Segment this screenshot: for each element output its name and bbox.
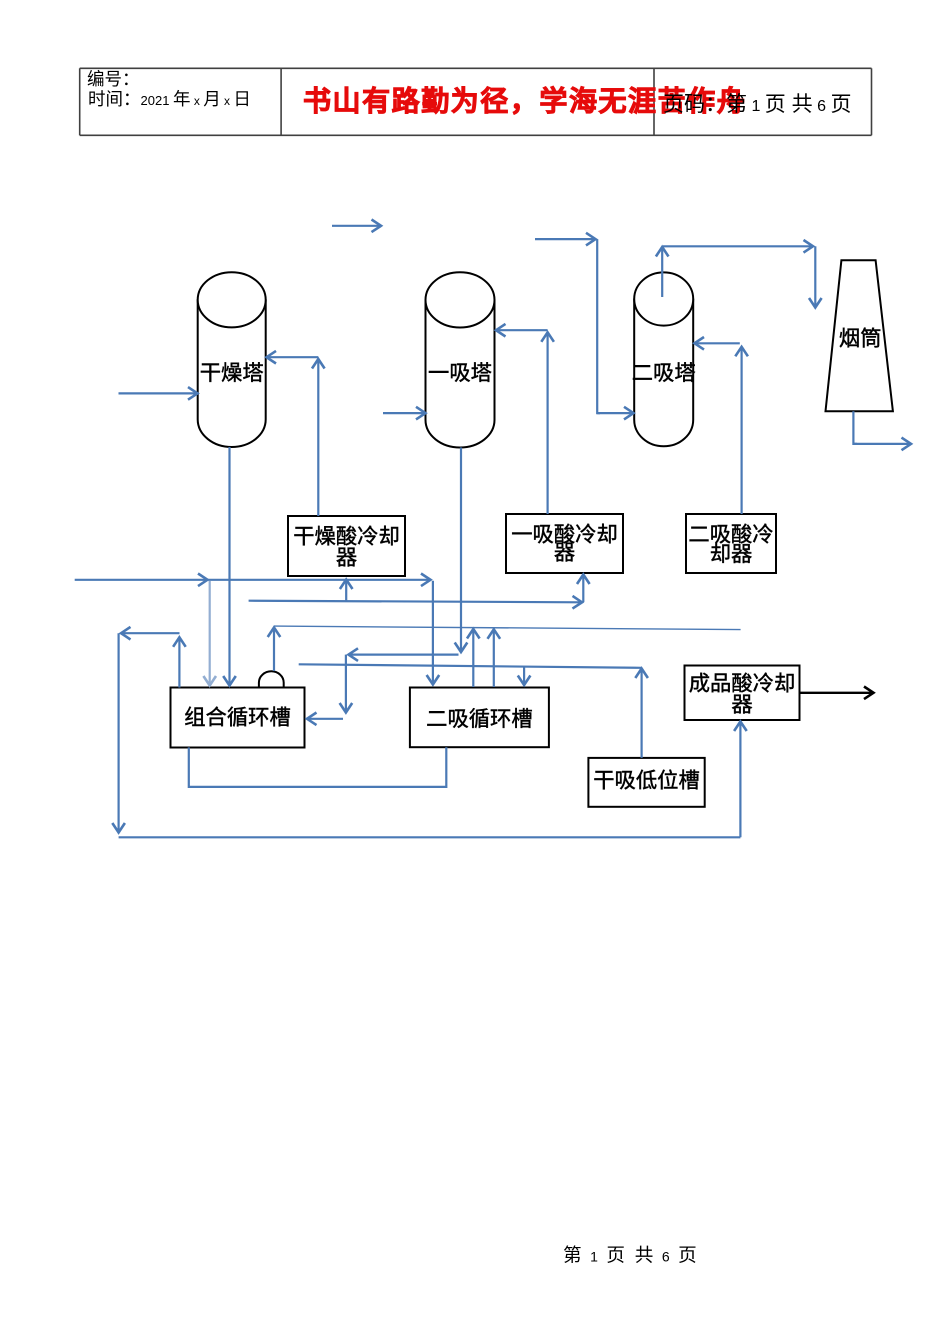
black product outlet arrow [800,692,873,694]
wire 干燥酸冷却器 to 干燥塔 vertical [317,360,319,517]
svg-text:器: 器 [336,546,357,570]
wire to 二吸塔 elbow [597,239,600,413]
svg-text:一吸塔: 一吸塔 [428,361,492,385]
wire vent down to chimney [814,246,816,307]
svg-text:干燥塔: 干燥塔 [200,361,264,385]
box 二吸循环槽 [410,688,549,748]
wire dome vent up [273,628,275,671]
box 干燥酸冷却器 [288,516,405,576]
wire 一吸酸冷却器 to 一吸塔 vertical [546,333,548,514]
wire line D [299,664,642,668]
wire elbow to left [349,653,459,655]
wire long line to light drop [75,579,207,581]
wire line C thin [274,626,741,630]
wire long line continues [208,579,431,581]
wire 干燥酸冷却器 to 干燥塔 horizontal [267,356,318,358]
wire 干燥塔 bottom to 组合循环槽 [228,447,230,685]
wire inlet to 一吸塔 [383,412,425,414]
wire vent horizontal [663,245,813,247]
box 二吸酸冷却器 [686,514,776,573]
wire 组合循环槽 bottom elbow [189,747,447,787]
wire up into 成品酸冷却器 [739,722,741,837]
wire into 组合循环槽 right [308,718,344,720]
svg-text:烟筒: 烟筒 [839,327,882,351]
svg-text:组合循环槽: 组合循环槽 [184,706,291,730]
box 成品酸冷却器 [685,666,800,721]
svg-text:编号：: 编号： [87,69,140,89]
wire line B horizontal [249,601,582,603]
wire 二吸酸冷却器 to 二吸塔 horizontal [695,342,740,344]
box 一吸酸冷却器 [506,514,623,573]
wire bottom long line [119,836,741,838]
wire line B up into 一吸酸冷却器 [582,575,584,602]
svg-text:器: 器 [731,693,752,717]
wire top short arrow [332,225,381,227]
wire chimney outlet [853,411,857,444]
wire 一吸酸冷却器 to 一吸塔 horizontal [497,329,548,331]
svg-text:第 1 页 共 6 页: 第 1 页 共 6 页 [563,1245,699,1266]
wire 二吸塔 top vent up [661,248,663,298]
svg-text:器: 器 [554,541,575,565]
wire line D drop into 二吸循环槽 [523,667,525,685]
wire left elbow [122,632,180,634]
wire corner down to 二吸循环槽 [432,581,434,684]
box 组合循环槽 [171,688,305,748]
wire 一吸塔 bottom down [460,448,462,652]
wire 二吸循环槽 vent up 2 [493,630,495,687]
wire 二吸循环槽 vent up 1 [472,630,474,688]
wire up arrow into 干燥酸冷却器 bottom [345,580,347,602]
tower 一吸塔 body [426,272,495,447]
svg-text:二吸循环槽: 二吸循环槽 [426,707,533,731]
wire to 二吸塔 inlet [597,412,633,414]
wire 二吸酸冷却器 to 二吸塔 vertical [740,347,742,514]
svg-text:干吸低位槽: 干吸低位槽 [593,769,700,793]
svg-text:二吸塔: 二吸塔 [632,361,696,385]
wire corner down arrow toward 组合循环槽 [345,655,347,712]
wire 组合循环槽 top up [178,638,180,688]
svg-text:页码：第 1 页 共 6 页: 页码：第 1 页 共 6 页 [663,93,851,116]
svg-text:时间：2021 年 x 月 x 日: 时间：2021 年 x 月 x 日 [88,89,251,109]
tower 干燥塔 body [198,272,266,447]
wire to 二吸塔 horizontal top [535,238,595,240]
wire left big vertical down [117,633,119,832]
dome on 组合循环槽 [259,671,284,687]
box 干吸低位槽 [588,758,704,807]
wire light blue drop into 组合循环槽 [209,581,211,685]
svg-text:却器: 却器 [710,542,753,566]
wire inlet to 干燥塔 [119,392,198,394]
tower 二吸塔 body [634,272,693,446]
wire 干吸低位槽 up to line D [640,669,642,758]
header table frame [80,68,872,135]
chimney 烟筒 [826,260,893,411]
